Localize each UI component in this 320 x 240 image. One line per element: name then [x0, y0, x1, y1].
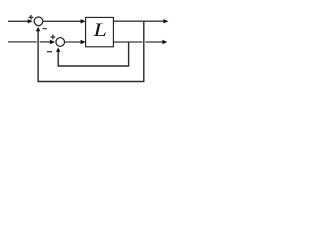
svg-text:L: L	[92, 20, 107, 41]
